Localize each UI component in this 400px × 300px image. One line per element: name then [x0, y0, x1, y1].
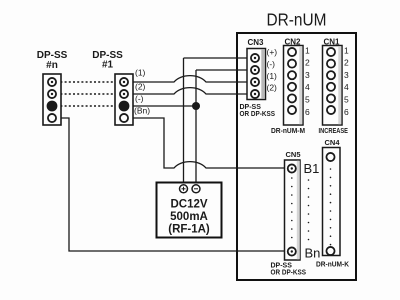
svg-text:DR-nUM: DR-nUM: [267, 10, 327, 30]
svg-text:4: 4: [305, 82, 310, 92]
svg-text:DR-nUM-K: DR-nUM-K: [316, 262, 349, 269]
svg-text:(-): (-): [267, 59, 276, 69]
svg-text:INCREASE: INCREASE: [319, 128, 349, 135]
svg-text:OR DP-KSS: OR DP-KSS: [240, 111, 276, 118]
svg-text:(1): (1): [135, 68, 146, 78]
svg-text:2: 2: [344, 58, 349, 68]
svg-text:3: 3: [344, 70, 349, 80]
svg-text:4: 4: [344, 82, 349, 92]
svg-text:B1: B1: [304, 161, 320, 176]
svg-text:3: 3: [305, 70, 310, 80]
svg-text:5: 5: [305, 95, 310, 105]
svg-text:500mA: 500mA: [170, 211, 208, 223]
svg-text:(-): (-): [135, 94, 144, 104]
svg-text:(RF-1A): (RF-1A): [168, 224, 210, 236]
svg-text:2: 2: [305, 58, 310, 68]
svg-text:Bn: Bn: [305, 246, 321, 261]
svg-text:CN4: CN4: [325, 138, 341, 147]
svg-text:(2): (2): [267, 83, 278, 93]
svg-text:DR-nUM-M: DR-nUM-M: [271, 128, 305, 135]
svg-text:(1): (1): [267, 71, 278, 81]
svg-text:6: 6: [305, 107, 310, 117]
svg-text:(+): (+): [267, 47, 278, 57]
svg-text:CN5: CN5: [286, 150, 301, 159]
svg-text:DP-SS: DP-SS: [271, 263, 293, 270]
svg-text:6: 6: [344, 107, 349, 117]
svg-text:#n: #n: [46, 60, 58, 71]
svg-text:1: 1: [344, 45, 349, 55]
svg-text:(Bn): (Bn): [134, 106, 150, 116]
svg-text:OR DP-KSS: OR DP-KSS: [271, 270, 307, 277]
svg-text:DC12V: DC12V: [170, 199, 207, 211]
svg-text:DP-SS: DP-SS: [240, 104, 262, 111]
svg-text:(2): (2): [135, 82, 146, 92]
svg-text:CN3: CN3: [247, 38, 264, 47]
svg-text:#1: #1: [102, 60, 114, 71]
svg-text:5: 5: [344, 95, 349, 105]
svg-text:1: 1: [305, 45, 310, 55]
